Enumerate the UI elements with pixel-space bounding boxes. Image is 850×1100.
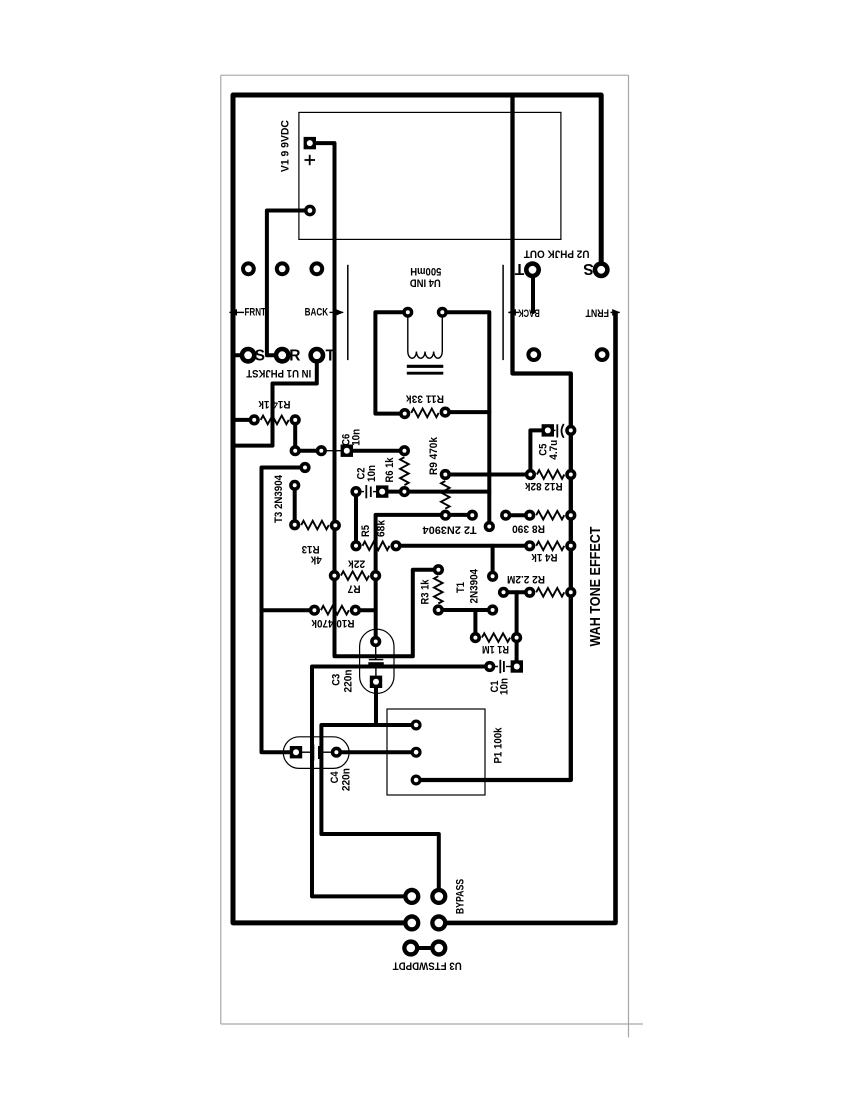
svg-text:R12 82k: R12 82k [524,480,563,492]
svg-text:R14 1k: R14 1k [258,398,291,410]
svg-text:P1 100k: P1 100k [492,727,504,764]
svg-text:500mH: 500mH [410,265,441,277]
svg-text:C3: C3 [330,674,342,686]
svg-text:WAH TONE EFFECT: WAH TONE EFFECT [587,527,604,647]
svg-text:10n: 10n [366,465,378,482]
svg-text:R5: R5 [360,525,372,537]
svg-text:C4: C4 [329,771,341,783]
svg-text:T1: T1 [455,582,467,593]
svg-text:BYPASS: BYPASS [454,879,466,914]
svg-text:R7: R7 [348,583,361,595]
svg-text:68k: 68k [376,519,388,537]
svg-text:220n: 220n [342,670,354,693]
svg-text:IN U1 PHJKST: IN U1 PHJKST [246,367,311,379]
svg-text:R11 33k: R11 33k [405,392,444,404]
svg-text:U2 PHJK OUT: U2 PHJK OUT [523,247,589,259]
svg-text:R8 390: R8 390 [512,523,545,535]
svg-text:T2 2N3904: T2 2N3904 [423,523,477,535]
svg-text:R4 1k: R4 1k [531,551,558,563]
svg-text:2N3904: 2N3904 [469,569,481,604]
svg-text:T3 2N3904: T3 2N3904 [273,475,285,523]
svg-text:U4 IND: U4 IND [410,277,441,289]
svg-text:R3 1k: R3 1k [420,579,432,605]
svg-text:R2 2.2M: R2 2.2M [507,573,545,585]
svg-text:R6 1k: R6 1k [384,457,396,483]
svg-text:R1 1M: R1 1M [482,643,509,655]
svg-text:220n: 220n [341,768,353,791]
svg-text:BACK: BACK [518,306,540,318]
svg-text:4.7u: 4.7u [548,440,560,460]
svg-text:V1 9 9VDC: V1 9 9VDC [279,120,291,172]
svg-text:S: S [583,260,593,277]
svg-text:FRNT: FRNT [585,306,609,318]
svg-text:10n: 10n [499,678,511,695]
svg-text:R10 470k: R10 470k [311,617,355,629]
svg-text:10n: 10n [351,429,363,446]
svg-text:R9 470k: R9 470k [428,436,440,475]
svg-text:FRNT: FRNT [244,306,266,318]
svg-text:22k: 22k [347,557,365,569]
svg-text:T: T [514,260,524,277]
svg-text:T: T [325,348,335,365]
svg-text:R: R [289,348,300,365]
svg-text:BACK: BACK [305,306,329,318]
svg-text:4k: 4k [310,554,322,566]
svg-text:S: S [255,348,265,365]
svg-text:U3 FTSWDPDT: U3 FTSWDPDT [392,960,461,972]
svg-text:R13: R13 [302,543,320,555]
